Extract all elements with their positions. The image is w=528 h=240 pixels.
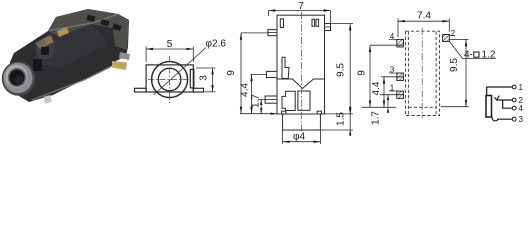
front view inner circle [158,68,181,91]
tip spring contact [282,57,289,78]
baseline arrow [271,113,277,115]
pad 2 [443,35,450,42]
svg-text:4: 4 [519,104,524,113]
baseline view3 [362,106,397,108]
dashed barrel lines [407,32,409,116]
svg-text:3: 3 [519,115,524,124]
dim 9.5 (view3) ext top [450,38,469,40]
photo: barrel inner step [8,68,27,88]
front view centerline horizontal [148,79,191,81]
dim 9 view3 arrows [369,45,371,52]
sleeve U contact [282,91,295,110]
top-right slots [312,19,315,26]
dim 9.5 arrows [349,24,351,31]
dim 7.4 extensions [397,19,399,38]
dim 3 extension lines [196,67,216,69]
dim 9.5 line [465,39,467,106]
dim 4.4 view3 arrows [383,77,385,84]
dim 5 extension lines [145,47,147,63]
photo: gold contact [57,27,69,37]
svg-text:1.7: 1.7 [371,111,382,125]
photo: smd pin below front [43,95,52,104]
svg-text:4: 4 [390,32,395,41]
pin 3 terminal [512,117,516,121]
leader phi2.6 [154,48,207,96]
wire pin1 [487,87,513,96]
top-left slot [280,19,283,28]
dim 1.5 extensions [325,113,354,115]
dim 7 line [269,10,331,12]
pad label ticks [389,36,455,92]
barrel below body [283,114,321,130]
pin 4 terminal [512,106,516,110]
photo: front face sheen [32,24,108,68]
inner ledge with V notch [277,79,325,89]
dim 9 arrows [240,33,242,40]
jack sleeve contact [486,96,492,118]
sleeve hook to pin3 [492,115,513,121]
leader 4-1.2 [450,42,497,59]
pad 1 [397,91,404,99]
dim phi4 extensions [282,130,284,144]
photo: connector body silhouette [8,9,129,102]
front view body [146,65,193,92]
svg-text:2: 2 [451,29,456,38]
photo: bottom edge highlight [32,67,111,101]
svg-text:3: 3 [199,75,210,81]
dim 4.4 extension [250,73,266,75]
dim 1.7 arrows [260,100,262,105]
bottom baseline [240,113,277,115]
dim 9.5/1.5 line [349,24,351,114]
svg-text:4.4: 4.4 [371,81,382,95]
dim 7 arrows [269,9,276,11]
dim 1.7 line [260,100,262,114]
svg-text:3: 3 [390,66,395,75]
photo: top face slots [86,14,95,21]
wire pin4 [503,100,513,108]
middle left tab [267,71,278,77]
svg-text:9.5: 9.5 [336,63,347,77]
dim 5 arrows [146,48,153,50]
right pin [325,24,331,31]
dim 9.5 view3 arrows [465,39,467,46]
svg-text:1.2: 1.2 [482,50,496,61]
pin 2 terminal [512,98,516,102]
photo: barrel outer [2,61,36,96]
pad 4 [397,40,404,48]
photo: top face [48,9,129,36]
dim phi4 line [283,141,321,143]
dim 3 line [212,68,214,92]
wire pin2 with tip spring check [495,96,500,100]
dim 5 line [146,48,193,50]
svg-text:9: 9 [226,70,237,76]
upper left pin [268,30,277,36]
photo: barrel ring highlight [6,65,28,88]
photo: right end face [112,14,129,50]
dim 9 extension [241,32,268,34]
svg-text:1: 1 [519,83,524,92]
svg-text:7: 7 [298,1,304,12]
dim 4.4 line [383,77,385,108]
dim 1.5 arrows (outside) [349,109,351,114]
dashed body outline [406,31,440,115]
dim 4.4 line [251,74,253,113]
front view centerline vertical [169,56,171,103]
body outline [277,15,325,114]
svg-text:φ2.6: φ2.6 [206,39,227,50]
dim 9 (view3) extension [370,44,404,46]
dim 1.7 line [387,95,389,108]
svg-text:9.5: 9.5 [449,58,460,72]
dim 9 line [240,33,242,114]
front view side bar [190,69,194,88]
pad 3 [397,73,404,81]
svg-text:4-: 4- [464,50,473,61]
photo: raised block near barrel [35,35,55,60]
svg-text:1: 1 [390,84,395,93]
svg-text:φ4: φ4 [293,132,305,143]
svg-text:1.5: 1.5 [336,112,347,126]
front view right ear [193,88,203,92]
dim 1.7 extension [258,99,265,101]
dim 1.7 (view3) extension [380,94,404,96]
svg-text:5: 5 [167,39,173,50]
dim 7.4 line [398,20,449,22]
svg-text:1.7: 1.7 [251,94,262,108]
center line view2 [301,12,303,133]
bottom corner notches [282,111,286,114]
pin 1 terminal [512,85,516,89]
dim 9 line [369,45,371,107]
photo: barrel ring [3,63,32,93]
center line view3 [421,28,423,118]
dim phi4 arrows [283,141,290,143]
dim 1.7 view3 arrows [387,95,389,100]
dim 7.4 arrows [398,20,405,22]
dim 4.4 arrows [250,74,252,81]
dim 4.4 (view3) extension [381,76,404,78]
dim 9.5 ext bottom [441,106,469,108]
photo: barrel hole [9,70,24,86]
svg-text:7.4: 7.4 [417,11,431,22]
lower left pin [265,96,277,103]
front view left ear [135,88,147,92]
dim 9.5 extension top [331,23,354,25]
dim 7 extensions [268,11,270,17]
svg-text:4.4: 4.4 [240,83,251,97]
front view outer circle [152,62,188,98]
photo: right gold pin [112,61,127,70]
center square contact [298,91,310,110]
photo: front face slot [33,59,42,71]
svg-text:9: 9 [357,70,368,76]
dim 3 arrows [211,68,213,75]
